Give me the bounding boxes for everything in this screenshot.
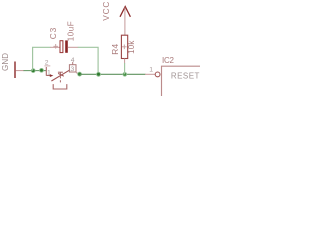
- wire RESET net horizontal: [80, 73, 146, 75]
- svg-text:RESET: RESET: [171, 72, 200, 81]
- ground symbol bar: [14, 62, 16, 79]
- svg-text:10k: 10k: [127, 40, 136, 54]
- capacitor C3 plate 1 (outlined): [60, 41, 63, 53]
- switch S actuator stem dashed: [59, 72, 61, 83]
- node junction dot D: [97, 72, 101, 76]
- svg-text:GND: GND: [1, 53, 10, 71]
- switch S lever: [51, 70, 70, 81]
- switch S left connection bar: [45, 67, 47, 76]
- resistor R4 origin cross: [122, 45, 127, 50]
- switch S pin 2 line: [44, 65, 50, 67]
- svg-text:10uF: 10uF: [67, 21, 76, 41]
- node junction dot C: [78, 72, 82, 76]
- svg-text:3: 3: [71, 66, 75, 73]
- switch S pin 3 box: [69, 65, 76, 72]
- ground pin: [16, 70, 25, 72]
- switch S pin 3 link: [76, 73, 80, 74]
- switch S fixed contact lead: [46, 75, 50, 77]
- background: [0, 0, 200, 96]
- capacitor C3 left pin: [50, 46, 60, 48]
- node junction dot E: [123, 72, 127, 76]
- svg-text:VCC: VCC: [101, 1, 111, 21]
- switch S lever tick: [58, 73, 64, 76]
- IC2 pin line: [145, 73, 155, 75]
- svg-text:R4: R4: [110, 43, 120, 54]
- svg-text:4: 4: [71, 57, 75, 64]
- svg-text:IC2: IC2: [162, 56, 175, 65]
- node junction dot B: [40, 68, 44, 72]
- supply VCC pin: [124, 8, 126, 36]
- IC2 inversion bubble: [155, 72, 160, 77]
- capacitor C3 right pin: [68, 46, 78, 48]
- svg-text:1: 1: [149, 66, 153, 73]
- resistor R4 body: [121, 35, 127, 58]
- node junction dot A: [31, 69, 35, 73]
- switch S actuator tee: [58, 71, 63, 73]
- switch S pin 4 stub: [72, 62, 74, 65]
- wire GND net horizontal: [24, 70, 47, 72]
- switch S button staple: [53, 84, 67, 89]
- supply VCC arrow: [120, 7, 130, 17]
- wire C3 to RESET net: [78, 47, 98, 74]
- capacitor C3 origin cross: [53, 44, 58, 49]
- resistor R4 bottom pin: [124, 59, 126, 64]
- svg-text:C3: C3: [48, 27, 58, 39]
- wire R4 to RESET net: [124, 63, 126, 74]
- capacitor C3 plate 2 (filled): [65, 40, 68, 52]
- switch S fixed contact arrowhead: [50, 74, 54, 77]
- wire GND net up to C3: [33, 47, 51, 70]
- IC2 box outline: [162, 66, 201, 96]
